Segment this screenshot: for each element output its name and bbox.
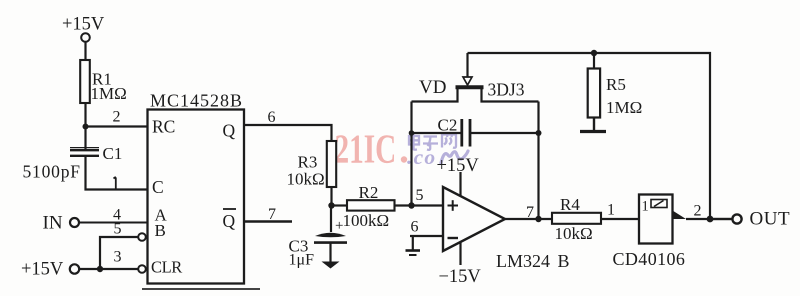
svg-text:+: + (335, 218, 343, 234)
wire top rail (468, 53, 732, 219)
svg-text:CLR: CLR (151, 258, 182, 277)
node junction output/feedback (535, 216, 541, 222)
pin 1 mark (114, 177, 116, 190)
svg-text:Q: Q (223, 121, 236, 141)
node junction C2 right (536, 130, 542, 136)
wire op-amp output to R4 (505, 218, 552, 220)
resistor R2 (343, 183, 395, 230)
svg-text:5: 5 (416, 187, 424, 204)
resistor R4 (552, 195, 601, 243)
svg-text:1μF: 1μF (289, 252, 315, 269)
wire R3 to node (330, 187, 332, 206)
svg-text:C1: C1 (103, 144, 123, 163)
wire IN to pin 4 A (79, 222, 147, 224)
wire node to pin 2 RC (86, 125, 148, 127)
ground stub op-amp minus (406, 236, 421, 255)
+15V supply terminal top-left (62, 15, 105, 42)
svg-text:3: 3 (114, 249, 122, 266)
svg-text:1: 1 (642, 199, 649, 215)
svg-text:+15V: +15V (62, 15, 105, 35)
transistor VD 3DJ3 (412, 53, 539, 102)
-15V supply op-amp (439, 242, 482, 287)
svg-text:+15V: +15V (437, 156, 480, 176)
wire op-amp minus input (410, 235, 443, 237)
wire +15V to R1 (84, 42, 86, 60)
svg-text:C2: C2 (438, 116, 458, 135)
svg-text:1: 1 (607, 202, 615, 219)
node junction R3/R2/C3 (328, 202, 334, 208)
wire feedback right vertical (537, 102, 539, 220)
svg-text:6: 6 (268, 109, 276, 126)
wire B to node (100, 237, 138, 269)
ground under C3 (322, 262, 340, 269)
gate U3 CD40106 (613, 195, 687, 270)
svg-text:R2: R2 (359, 183, 379, 202)
wire +15V to pin 3 CLR (79, 268, 138, 270)
wire R5 to ground (593, 118, 595, 131)
resistor R5 (588, 53, 643, 118)
node junction rail/R5 (591, 50, 597, 56)
capacitor C3 (289, 206, 348, 269)
wire R1 to node (84, 103, 86, 128)
wire Q-bar pin 7 stub (244, 220, 292, 222)
node junction R1/C1/pin2 (83, 124, 89, 130)
svg-text:1MΩ: 1MΩ (91, 84, 127, 103)
resistor R1 (80, 60, 127, 103)
svg-text:100kΩ: 100kΩ (343, 211, 390, 230)
svg-text:3DJ3: 3DJ3 (488, 80, 525, 100)
wire node to R2 (332, 204, 348, 206)
capacitor C1 (23, 127, 123, 182)
wire R2 to op-amp + (395, 204, 444, 206)
node junction OUT (707, 216, 714, 223)
svg-text:RC: RC (152, 117, 175, 137)
svg-text:MC14528B: MC14528B (150, 91, 243, 111)
svg-text:OUT: OUT (750, 209, 791, 230)
svg-text:B: B (155, 221, 166, 240)
capacitor C2 (412, 116, 539, 147)
svg-text:21IC: 21IC (335, 126, 397, 172)
wire C3 to ground (329, 243, 331, 262)
svg-text:2: 2 (113, 109, 121, 126)
wire gate output to OUT (686, 218, 732, 220)
svg-text:10kΩ: 10kΩ (555, 224, 593, 243)
svg-text:2: 2 (694, 203, 702, 220)
node junction B/CLR (97, 266, 103, 272)
svg-text:5100pF: 5100pF (23, 162, 81, 182)
bubble pin 5 B (138, 233, 146, 241)
svg-text:LM324 B: LM324 B (496, 251, 570, 271)
node junction R2/op-amp+/feedback (408, 202, 414, 208)
svg-text:−15V: −15V (439, 267, 482, 287)
+15V supply op-amp (437, 156, 480, 197)
svg-text:5: 5 (114, 221, 122, 238)
svg-text:7: 7 (526, 204, 534, 221)
IN terminal (43, 213, 80, 234)
wire R4 to CD40106 (601, 218, 639, 220)
wire Q pin 6 to R3 (244, 125, 332, 141)
svg-text:Q: Q (223, 211, 236, 231)
watermark 21IC.com (335, 126, 469, 172)
wire feedback left vertical (410, 102, 412, 206)
ground under R5 (580, 130, 606, 133)
IC U1 MC14528B (148, 91, 245, 284)
svg-text:C: C (152, 177, 164, 197)
svg-text:R4: R4 (560, 195, 580, 214)
node junction C2 left (409, 130, 415, 136)
op-amp U2 LM324 B (443, 187, 570, 271)
ghost line under IC (142, 288, 260, 290)
wire C1 to pin C (86, 156, 148, 190)
svg-text:10kΩ: 10kΩ (287, 170, 325, 189)
svg-text:CD40106: CD40106 (613, 249, 686, 269)
+15V terminal bottom-left (21, 260, 79, 280)
resistor R3 (287, 141, 337, 189)
svg-text:1MΩ: 1MΩ (606, 98, 642, 117)
svg-text:+15V: +15V (21, 260, 64, 280)
svg-text:VD: VD (419, 77, 446, 98)
svg-text:6: 6 (411, 219, 419, 236)
svg-text:R5: R5 (606, 75, 626, 94)
svg-text:IN: IN (43, 213, 63, 234)
OUT terminal (732, 209, 790, 230)
bubble pin 3 CLR (138, 265, 146, 273)
